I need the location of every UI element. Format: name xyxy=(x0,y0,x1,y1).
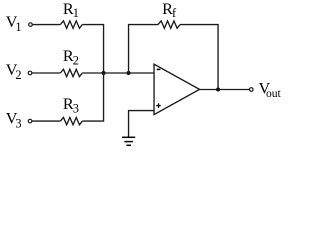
terminal V1 xyxy=(29,23,33,27)
wire V3 to R3 xyxy=(32,120,60,122)
wire R2 to node A xyxy=(82,72,103,74)
terminal V2 xyxy=(28,71,32,75)
label V3 xyxy=(6,109,22,130)
svg-text:2: 2 xyxy=(15,68,21,82)
svg-text:1: 1 xyxy=(73,6,79,20)
label V1 xyxy=(6,13,22,34)
svg-text:3: 3 xyxy=(15,116,21,130)
wire feedback top right xyxy=(180,24,219,26)
wire feedback down to output node xyxy=(217,24,219,90)
wire node A to node B xyxy=(104,72,129,74)
ground xyxy=(122,137,135,145)
svg-text:1: 1 xyxy=(15,20,21,34)
node B xyxy=(127,71,131,75)
label R1 xyxy=(63,0,79,20)
label R3 xyxy=(63,95,79,115)
wire V1 to R1 xyxy=(32,24,60,26)
wire R3 to node A xyxy=(82,74,103,122)
resistor R2 xyxy=(60,69,82,76)
wire ground to op-amp non-inverting input xyxy=(129,111,155,137)
terminal Vout xyxy=(249,88,253,92)
wire feedback top left xyxy=(128,24,158,26)
wire R1 to node A xyxy=(82,25,103,73)
svg-text:3: 3 xyxy=(73,101,79,115)
wire op-amp output xyxy=(199,89,249,91)
label V2 xyxy=(6,61,22,82)
svg-text:out: out xyxy=(266,87,282,100)
op-amp U1 xyxy=(154,64,200,115)
resistor R3 xyxy=(60,117,82,124)
label Vout xyxy=(258,80,281,100)
terminal V3 xyxy=(28,119,32,123)
label Rf xyxy=(162,0,177,20)
node C output junction xyxy=(216,88,220,92)
wire node B up to feedback xyxy=(128,25,130,73)
node A xyxy=(102,71,106,75)
resistor R1 xyxy=(60,21,82,28)
wire node B to op-amp inverting input xyxy=(129,72,155,74)
resistor Rf xyxy=(158,21,180,28)
svg-text:2: 2 xyxy=(73,53,79,67)
wire V2 to R2 xyxy=(32,72,60,74)
label R2 xyxy=(63,47,79,67)
